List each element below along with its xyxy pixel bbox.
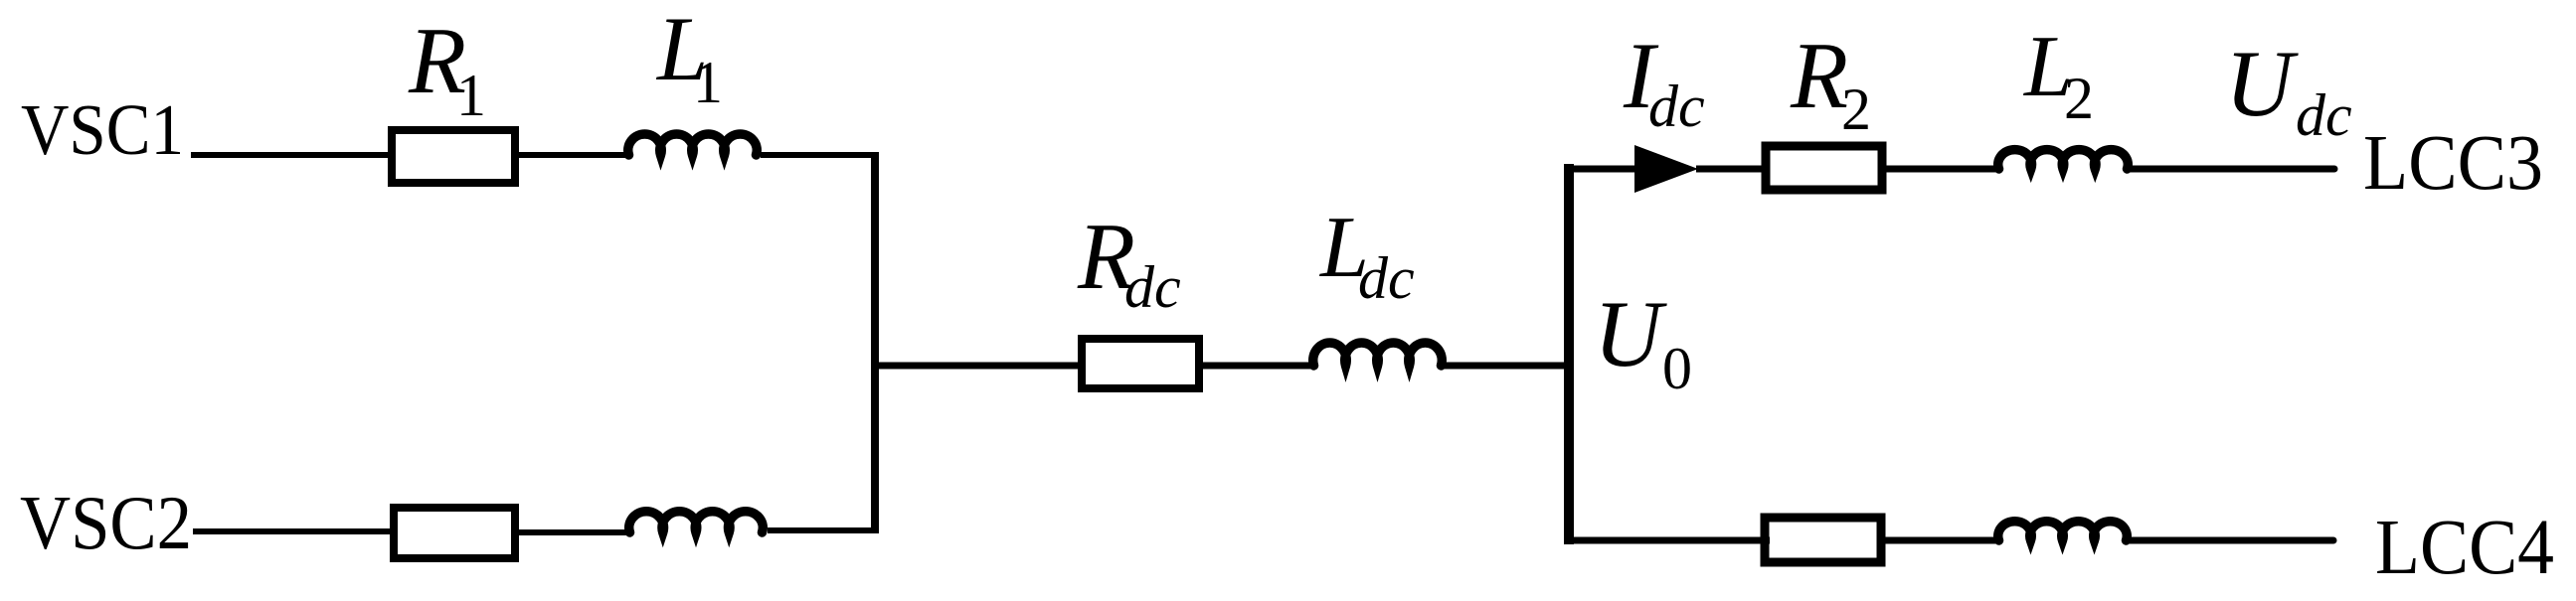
wire right bus to arrow [1564, 166, 1638, 173]
label R1 [408, 8, 486, 128]
svg-text:U: U [2225, 31, 2299, 136]
wire Rdc to Ldc [1199, 363, 1312, 370]
wire R1 to L1 [519, 152, 628, 158]
svg-text:dc: dc [1124, 254, 1181, 320]
wire arrow to R2 [1696, 166, 1768, 173]
inductor L2 [1998, 150, 2129, 169]
resistor R1 [392, 130, 515, 183]
right bus [1564, 164, 1574, 544]
label Rdc [1077, 204, 1181, 320]
label Udc [2225, 31, 2352, 148]
wire R2 to L2 [1882, 166, 1997, 173]
wire right bus to R bottom-right [1564, 537, 1770, 544]
inductor bottom-left [629, 512, 764, 532]
svg-text:2: 2 [2064, 66, 2094, 131]
label Ldc [1318, 200, 1415, 311]
resistor Rdc [1082, 339, 1199, 388]
svg-text:dc: dc [2296, 82, 2352, 148]
wire VSC2 to R bottom-left [193, 528, 394, 534]
resistor bottom-left [394, 508, 515, 558]
label Idc [1623, 23, 1705, 139]
wire L1 to left bus [761, 152, 879, 158]
svg-text:VSC2: VSC2 [20, 480, 192, 565]
svg-text:LCC4: LCC4 [2375, 505, 2554, 591]
current arrow Idc [1634, 145, 1698, 193]
svg-text:LCC3: LCC3 [2363, 120, 2543, 207]
svg-text:R: R [1790, 23, 1848, 128]
label L2 [2022, 19, 2094, 131]
inductor L1 [628, 134, 758, 155]
label R2 [1790, 23, 1871, 142]
wire bus to Rdc [875, 363, 1086, 370]
wire R to L bottom-right [1881, 537, 1997, 544]
label U0 [1594, 281, 1692, 401]
resistor bottom-right [1765, 518, 1881, 562]
wire R to L bottom-left [519, 529, 628, 535]
svg-text:1: 1 [456, 63, 486, 128]
svg-text:U: U [1594, 281, 1667, 386]
wire L2 to LCC3 [2130, 166, 2334, 173]
svg-text:VSC1: VSC1 [21, 89, 184, 170]
left bus [871, 152, 879, 531]
svg-text:dc: dc [1358, 245, 1415, 311]
inductor Ldc [1313, 343, 1443, 366]
svg-text:1: 1 [693, 50, 723, 115]
inductor bottom-right [1998, 522, 2128, 540]
wire VSC1 to R1 [191, 152, 392, 158]
svg-text:dc: dc [1648, 74, 1705, 139]
label L1 [655, 0, 723, 115]
resistor R2 [1766, 146, 1882, 190]
svg-text:2: 2 [1841, 76, 1871, 142]
wire to LCC4 [2129, 537, 2333, 544]
wire bottom-left to bus [768, 527, 879, 533]
svg-text:0: 0 [1662, 336, 1692, 401]
wire Ldc to right bus [1442, 363, 1574, 370]
